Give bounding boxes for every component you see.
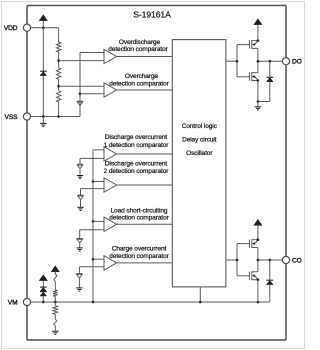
VM sense bus vertical (x=93) [92, 150, 94, 302]
svg-text:VDD: VDD [4, 25, 18, 32]
junction control box line on VM rail [199, 301, 202, 304]
transistor Q3 PMOS (CO high side) [237, 243, 249, 245]
junction DO node at Q1/Q2 [257, 60, 260, 63]
transistor Q1 PMOS (DO high side) [237, 44, 249, 46]
VDD symbol arrow above VM pull-up [52, 266, 59, 271]
resistor R2 [57, 68, 61, 79]
svg-text:DO: DO [292, 59, 302, 66]
op-amp charge overcurrent detection comparator [104, 256, 117, 270]
voltage reference VREF5 [76, 273, 82, 275]
svg-text:Oscillator: Oscillator [186, 150, 213, 157]
wire discharge OC2 minus input to VREF3 [81, 188, 105, 190]
DO gate bus vertical [236, 45, 238, 77]
pin DO [282, 58, 289, 65]
wire overdischarge comparator output [117, 56, 173, 58]
junction VM sense bus on VM rail [92, 301, 95, 304]
IC boundary left edge upper (top to VDD pin) [26, 6, 28, 25]
svg-text:VM: VM [8, 299, 18, 306]
svg-text:Control logic: Control logic [182, 123, 218, 130]
wire charge OC minus input to VREF5 [79, 266, 104, 268]
svg-text:VSS: VSS [5, 114, 19, 121]
wire charge OC output [117, 262, 173, 264]
svg-text:CO: CO [292, 257, 302, 264]
svg-text:Discharge overcurrent: Discharge overcurrent [105, 161, 168, 168]
transistor Q4 NMOS (CO low side) [237, 275, 249, 277]
svg-text:detection comparator: detection comparator [109, 80, 169, 87]
wire diode D2 anode to Q2 source [269, 82, 271, 102]
IC boundary left edge mid (VDD to VSS pin) [26, 31, 28, 113]
wire DO node to DO pin [258, 60, 283, 62]
ground below VREF5 [76, 287, 82, 289]
wire VDD rail [31, 27, 59, 29]
VDD symbol arrow above Q3 [254, 220, 261, 225]
IC boundary right edge upper (DO to top corner) [285, 6, 287, 58]
svg-text:2 detection comparator: 2 detection comparator [104, 168, 170, 175]
junction pull-up on VM rail [54, 301, 57, 304]
junction diode stack on VM rail [42, 301, 45, 304]
junction bus at OC2 [92, 180, 95, 183]
diode D2 (DO clamp) [266, 76, 273, 78]
VDD symbol arrow above diode stack [40, 275, 47, 280]
pin CO [282, 256, 289, 263]
wire Q1 source to DO node [257, 48, 259, 61]
wire discharge OC1 minus input to VREF2 [80, 157, 104, 159]
reference bus vertical (x=80) [79, 53, 81, 117]
voltage reference VREF3 [77, 194, 83, 196]
voltage reference VREF2 [77, 163, 83, 165]
control logic block [172, 40, 226, 287]
wire node N1 to overdischarge comparator minus input [59, 60, 104, 62]
wire overcharge comparator output [117, 89, 173, 91]
junction CO node at diode D3 [269, 259, 272, 262]
junction CO node at Q3/Q4 [257, 259, 260, 262]
ground below SW2 [52, 330, 58, 332]
node N1 junction [57, 59, 60, 62]
pin VDD [23, 24, 30, 31]
wire VDD to diode D1 [42, 28, 44, 71]
wire SW1 to resistor R4 [54, 281, 56, 290]
IC boundary right edge mid (CO to DO pin) [285, 65, 287, 257]
junction CO gate bus [236, 259, 239, 262]
junction resistor string on VSS rail [57, 115, 60, 118]
svg-text:detection comparator: detection comparator [109, 215, 169, 222]
VM rail [31, 301, 258, 303]
resistor R4 (VM pull-up) [53, 290, 58, 297]
wire Q3 source to CO node [257, 248, 259, 261]
svg-text:S-19161A: S-19161A [133, 10, 171, 20]
wire VDD arrow to Q3 drain [257, 225, 259, 240]
wire Q4 source to VM rail [257, 280, 259, 302]
wire discharge OC2 output [117, 184, 173, 186]
wire Q4 drain to CO node [257, 260, 259, 272]
wire bus to load short comparator plus input [93, 220, 104, 222]
wire R3 to VSS rail [58, 102, 60, 116]
wire diode D3 anode to VM rail [269, 285, 271, 302]
op-amp discharge overcurrent 2 detection comparator [104, 178, 117, 192]
VDD symbol arrow above Q1 [254, 19, 261, 24]
wire SW2 to ground [54, 326, 56, 332]
transistor Q2 NMOS (DO low side) [237, 76, 249, 78]
svg-text:Discharge overcurrent: Discharge overcurrent [105, 134, 168, 141]
IC boundary left edge bottom (VM to corner) [26, 306, 28, 340]
wire control box to DO gate bus [226, 60, 237, 62]
diode D3 (CO clamp) [266, 279, 273, 281]
wire bus to charge OC comparator plus input [93, 258, 104, 260]
junction on VDD rail at x=43 [42, 26, 45, 29]
ground at VSS rail [42, 117, 44, 124]
CO gate bus vertical [236, 244, 238, 276]
svg-text:1 detection comparator: 1 detection comparator [104, 142, 170, 149]
voltage reference VREF1 on bus [77, 100, 83, 102]
wire VM rail to resistor R5 [54, 302, 56, 306]
svg-text:Overcharge: Overcharge [125, 73, 159, 80]
svg-text:Delay circuit: Delay circuit [182, 137, 217, 144]
ground below VREF2 [77, 175, 83, 177]
wire Q2 drain to DO node [257, 61, 259, 72]
voltage reference VREF4 [77, 238, 83, 240]
ground below VREF3 [77, 206, 83, 208]
svg-text:detection comparator: detection comparator [109, 253, 169, 260]
op-amp discharge overcurrent 1 detection comparator [104, 147, 117, 161]
wire reference bus to overdischarge comparator plus input [80, 52, 104, 54]
junction bus at charge OC [92, 258, 95, 261]
junction DO gate bus [236, 60, 239, 63]
IC boundary top edge [27, 5, 286, 7]
wire diode D1 to VSS rail [42, 76, 44, 117]
wire resistor string top [58, 28, 60, 42]
wire R1 to node N1 [58, 52, 60, 68]
junction diode-line on VSS rail [42, 115, 45, 118]
resistor R1 [57, 42, 61, 52]
pin VSS [23, 113, 30, 120]
wire bus to discharge OC1 comparator plus input [93, 149, 104, 151]
wire CO node to CO pin [258, 259, 283, 261]
VSS rail [31, 116, 80, 118]
diode D1 (VSS to VDD) [40, 70, 47, 72]
wire Q1 drain to VDD arrow [257, 24, 259, 40]
node N2 junction [57, 85, 60, 88]
op-amp overcharge detection comparator [104, 83, 117, 97]
IC boundary bottom edge [27, 339, 286, 341]
svg-text:Load short-circuiting: Load short-circuiting [111, 207, 168, 214]
switch SW2 (VM pull-down) [54, 319, 57, 325]
junction bus at load short [92, 220, 95, 223]
resistor R5 (VM pull-down) [53, 306, 58, 315]
pin VM [23, 298, 30, 305]
resistor R3 [57, 91, 61, 102]
svg-text:Charge overcurrent: Charge overcurrent [112, 246, 167, 253]
wire control box to VM rail [199, 287, 201, 302]
ground below VREF4 [77, 247, 83, 249]
svg-text:detection comparator: detection comparator [108, 46, 168, 53]
junction reference bus [79, 92, 82, 95]
svg-text:Overdischarge: Overdischarge [119, 39, 161, 46]
wire bus to discharge OC2 comparator plus input [93, 181, 104, 183]
wire load short output [117, 223, 173, 225]
wire discharge OC1 output [117, 153, 173, 155]
wire reference bus to overcharge comparator minus input [80, 93, 104, 95]
diode D4 (VM clamp upper) [40, 286, 47, 288]
wire Q2 source down [257, 81, 259, 102]
ground below DO driver [257, 102, 259, 107]
VDD symbol arrow above rail [40, 15, 47, 20]
wire load short minus input to VREF4 [80, 229, 104, 231]
wire R5 to switch SW2 [54, 314, 56, 319]
diode D5 (VM clamp lower) [40, 291, 47, 293]
wire CO node to diode D3 [269, 260, 271, 280]
IC boundary right edge lower (corner to CO pin) [285, 264, 287, 340]
op-amp overdischarge detection comparator [104, 49, 117, 63]
junction Q4 source on VM rail [257, 301, 260, 304]
op-amp load short-circuiting detection comparator [104, 217, 117, 231]
wire DO node to diode D2 [269, 61, 271, 77]
junction Q2 source / D2 [257, 100, 260, 103]
wire R4 to VM rail [54, 296, 56, 302]
wire R2 to node N2 [58, 79, 60, 90]
IC boundary left edge lower (VSS to VM pin) [26, 120, 28, 298]
wire node N2 to overcharge comparator plus input [59, 85, 104, 87]
wire diode stack to VM rail [42, 296, 44, 302]
switch SW1 (VM pull-up) [54, 274, 57, 281]
wire control box to CO gate bus [226, 259, 237, 261]
junction DO node at diode D2 [269, 60, 272, 63]
